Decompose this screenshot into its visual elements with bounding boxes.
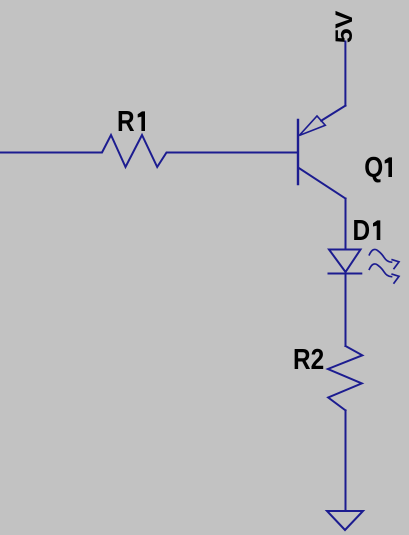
svg-text:Q: Q <box>364 151 383 183</box>
svg-text:R2: R2 <box>293 343 324 375</box>
svg-text:D: D <box>353 214 371 246</box>
svg-text:R: R <box>117 105 135 137</box>
svg-text:5V: 5V <box>331 11 358 44</box>
